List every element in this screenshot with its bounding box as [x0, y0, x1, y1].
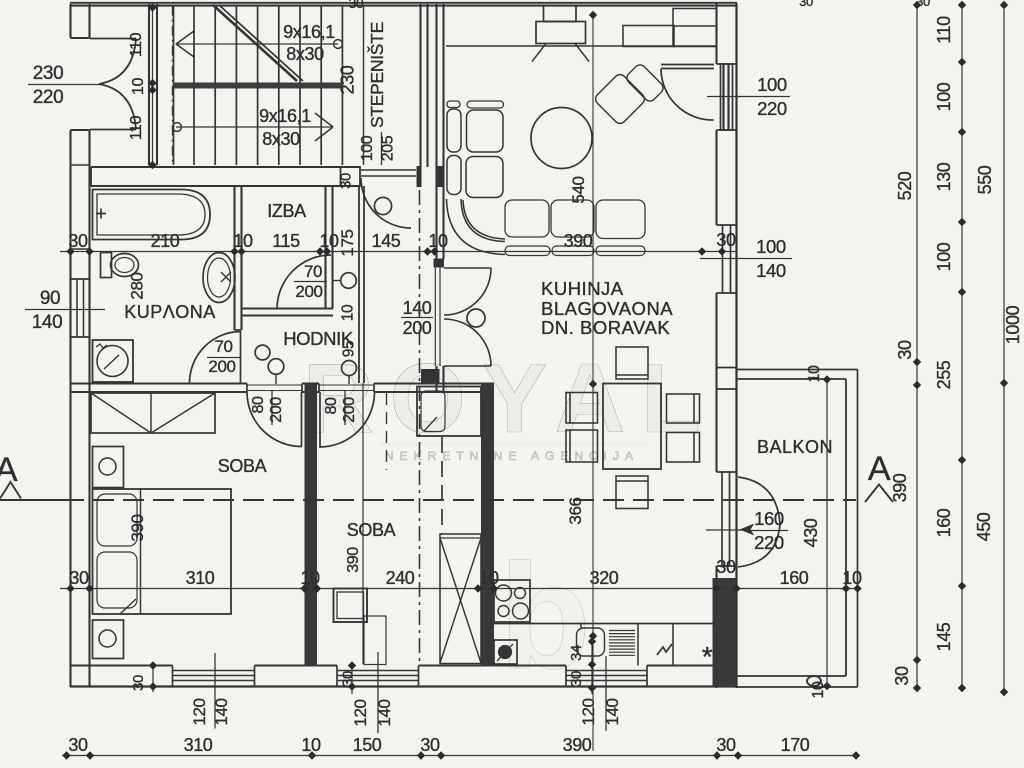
wall thickness dim 30 at bottom wall middle — [351, 662, 353, 694]
dining chair left 1 — [566, 393, 598, 424]
vertical dimension line x593 with 540 and 366 — [592, 13, 594, 751]
door knob circle at stair door — [374, 197, 391, 214]
electric symbol — [657, 644, 672, 655]
wall west of living room — [435, 4, 437, 259]
svg-text:A: A — [868, 450, 891, 488]
svg-text:310: 310 — [186, 568, 215, 588]
svg-text:175: 175 — [338, 229, 357, 256]
svg-text:9x16,1: 9x16,1 — [283, 22, 335, 42]
svg-text:70: 70 — [304, 262, 322, 281]
svg-text:160: 160 — [780, 568, 809, 588]
watermark ROYAL — [303, 343, 717, 700]
svg-text:200: 200 — [268, 397, 285, 423]
entry double door 230/220 with two swing arcs — [90, 38, 136, 40]
svg-text:230: 230 — [338, 65, 358, 94]
svg-text:SOBA: SOBA — [347, 520, 396, 540]
dining table — [603, 384, 661, 470]
svg-text:140: 140 — [756, 260, 786, 281]
svg-text:550: 550 — [975, 165, 995, 194]
svg-text:30: 30 — [895, 340, 915, 360]
sofa seat cushions left — [467, 110, 504, 152]
svg-text:30: 30 — [130, 675, 147, 691]
dining chair right 1 — [667, 394, 700, 423]
svg-text:390: 390 — [890, 473, 910, 502]
svg-text:10: 10 — [806, 365, 823, 382]
svg-text:10: 10 — [319, 231, 339, 251]
svg-text:10: 10 — [428, 231, 448, 251]
svg-text:10: 10 — [301, 735, 321, 755]
svg-text:320: 320 — [590, 568, 619, 588]
balcony door 160/220 glazing in right wall — [721, 472, 723, 566]
svg-text:SOBA: SOBA — [218, 456, 267, 476]
svg-text:140: 140 — [403, 298, 432, 318]
svg-text:HODNIK: HODNIK — [283, 328, 354, 349]
door threshold lines — [247, 384, 302, 386]
pillows — [97, 494, 137, 546]
svg-text:34: 34 — [568, 645, 585, 661]
svg-text:10: 10 — [810, 681, 827, 698]
svg-text:9x16,1: 9x16,1 — [259, 106, 311, 126]
kitchen sink basin with drain — [494, 640, 517, 664]
svg-text:30: 30 — [799, 0, 813, 9]
svg-text:205: 205 — [380, 135, 397, 161]
wall east of stairwell — [419, 4, 421, 167]
armchair cushion rotated 45 — [624, 62, 665, 103]
wall south of hallway — [70, 382, 247, 384]
double door 140/200 upper leaf and arc — [444, 267, 491, 269]
svg-text:30: 30 — [568, 671, 585, 687]
wall south of izba — [242, 307, 334, 309]
svg-text:150: 150 — [353, 735, 382, 755]
balcony rail junction block at wall — [717, 367, 737, 369]
furniture back line along top wall — [446, 45, 716, 47]
balcony length dim 430 — [826, 379, 828, 686]
svg-text:145: 145 — [372, 231, 401, 251]
svg-text:30: 30 — [340, 671, 357, 687]
svg-text:10: 10 — [300, 568, 320, 588]
wall under stairs — [91, 166, 360, 168]
wall thickness dim 30 at bottom wall left — [152, 662, 154, 692]
nightstand 1 with lamp — [93, 447, 124, 488]
dimension line right inner x917 — [916, 2, 918, 690]
door frame lines across opening — [434, 267, 436, 366]
sofa back slat left — [447, 109, 461, 152]
stair annotation lower 9x16,1 / 8x30 with arrow — [176, 126, 333, 128]
wall between bedroom2 and kitchen solid — [481, 384, 494, 667]
cabinet top right corner — [623, 26, 674, 47]
svg-text:BALKON: BALKON — [757, 437, 833, 457]
single bed bedroom2 — [417, 387, 481, 437]
svg-text:160: 160 — [754, 508, 784, 529]
svg-text:30: 30 — [68, 735, 88, 755]
dining chair left 2 — [566, 430, 598, 462]
svg-text:KUPΛONA: KUPΛONA — [124, 302, 216, 322]
svg-text:30: 30 — [420, 735, 440, 755]
dashed projection line — [419, 190, 421, 666]
svg-text:30: 30 — [716, 557, 736, 577]
svg-text:170: 170 — [781, 735, 810, 755]
svg-text:30: 30 — [69, 568, 89, 588]
tv cabinet — [544, 6, 577, 22]
svg-text:8x30: 8x30 — [286, 44, 324, 64]
kitchen hob 4 burners — [494, 580, 530, 622]
wall between bathroom and hallway — [233, 186, 235, 330]
balcony drain — [807, 676, 821, 686]
svg-text:240: 240 — [386, 568, 415, 588]
svg-text:390: 390 — [563, 735, 592, 755]
svg-text:30: 30 — [338, 173, 355, 189]
bathtub — [93, 190, 211, 240]
svg-text:100: 100 — [756, 236, 786, 257]
svg-text:STEPENIŠTE: STEPENIŠTE — [366, 22, 387, 128]
stair annotation upper 9x16,1 / 8x30 with arrow — [176, 43, 338, 45]
svg-text:10: 10 — [340, 304, 357, 321]
svg-text:10: 10 — [842, 568, 862, 588]
window label 100/140 — [700, 258, 792, 260]
window left (90/140) in bathroom wall — [71, 278, 90, 280]
wall between izba and hallway — [324, 186, 326, 308]
svg-text:KUHINJA: KUHINJA — [541, 278, 624, 299]
section line A-A dashed — [0, 499, 63, 501]
wall top exterior — [70, 2, 737, 4]
bedside cabinet bedroom2 — [334, 589, 368, 623]
stair break line diagonal — [213, 5, 297, 81]
balcony door 160/220 double swing arcs — [738, 477, 780, 524]
svg-text:NEKRETNINE AGENCIJA: NEKRETNINE AGENCIJA — [385, 449, 639, 463]
dashed projection line 2 — [441, 437, 443, 534]
svg-text:115: 115 — [272, 231, 300, 251]
svg-text:220: 220 — [754, 532, 784, 553]
svg-text:90: 90 — [40, 288, 60, 309]
svg-text:110: 110 — [128, 115, 145, 140]
svg-text:140: 140 — [603, 698, 622, 725]
entry dim chain 110 10 110 rotated — [152, 7, 154, 165]
door 80/200 to bedroom 1 leaf and arc — [301, 392, 303, 447]
door knob at izba door — [341, 273, 357, 289]
svg-text:30: 30 — [892, 666, 912, 686]
window 120/140 kitchen in bottom wall — [566, 670, 647, 672]
window dim 120/140 bedroom2 — [377, 652, 379, 733]
bathroom door 70/200 leaf and arc — [240, 331, 242, 383]
kitchen sink under window — [577, 628, 605, 656]
window 120/140 bedroom 1 in bottom wall — [173, 670, 255, 672]
bathtub tap — [96, 213, 106, 215]
dining chair right 2 — [667, 433, 700, 463]
svg-text:ROYAL: ROYAL — [303, 343, 717, 453]
wall thickness block with label 30 — [341, 167, 361, 186]
svg-text:390: 390 — [564, 231, 593, 251]
door 100/205 from stairs leaf and arc — [361, 169, 416, 171]
svg-text:80: 80 — [323, 397, 340, 414]
svg-text:30: 30 — [716, 230, 736, 250]
door knobs at bathroom door — [255, 345, 270, 360]
svg-text:120: 120 — [190, 698, 209, 725]
svg-text:100: 100 — [757, 74, 787, 95]
french window 100/220 glazing in right wall — [721, 64, 733, 130]
svg-text:100: 100 — [934, 82, 954, 111]
izba door 70/200 arc — [277, 255, 331, 309]
round coffee table — [531, 108, 592, 169]
balcony door label 160/220 — [706, 529, 749, 531]
toilet — [101, 253, 112, 278]
svg-text:540: 540 — [569, 176, 588, 203]
svg-text:390: 390 — [128, 514, 147, 541]
svg-text:430: 430 — [801, 518, 821, 547]
door jamb dark piece — [417, 166, 422, 187]
nightstand 2 with lamp — [93, 620, 124, 659]
svg-text:10: 10 — [233, 231, 253, 251]
double door 140/200 lower leaf and arc — [444, 365, 491, 367]
svg-text:30: 30 — [68, 231, 88, 251]
dimension line right middle x962 — [961, 2, 963, 690]
dining chair bottom — [616, 476, 648, 509]
sofa front slats — [505, 246, 550, 256]
partition extension line lower — [362, 383, 364, 664]
dimension chain interior y588 — [60, 588, 858, 590]
parapet dim 30 34 at kitchen — [591, 636, 593, 694]
svg-text:280: 280 — [128, 272, 147, 299]
sofa corner curve — [447, 199, 506, 255]
dining chair top — [616, 347, 648, 379]
svg-text:145: 145 — [934, 622, 954, 651]
svg-text:450: 450 — [974, 512, 994, 541]
french window 100/220 door leaf and arc — [661, 64, 714, 66]
svg-text:130: 130 — [934, 162, 954, 191]
armchair rotated 45 — [593, 72, 647, 126]
dimension line right outer x1004 — [1003, 2, 1005, 692]
wall between bedroom1 and bedroom2 solid — [305, 384, 318, 667]
svg-text:10: 10 — [479, 568, 499, 588]
svg-text:200: 200 — [403, 318, 432, 338]
svg-text:70: 70 — [214, 337, 232, 356]
svg-text:140: 140 — [375, 699, 394, 726]
svg-text:DN. BORAVAK: DN. BORAVAK — [541, 317, 670, 338]
svg-text:1000: 1000 — [1003, 305, 1023, 344]
svg-text:210: 210 — [151, 231, 180, 251]
dimension chain bottom y755 — [62, 755, 858, 757]
wall left exterior — [69, 4, 71, 38]
stair flight risers — [193, 6, 195, 165]
double bed — [93, 489, 232, 614]
balcony railing — [737, 369, 858, 371]
desk with cross bedroom2 — [440, 534, 481, 664]
stair walking line dashed — [172, 6, 174, 165]
svg-text:BLAGOVAONA: BLAGOVAONA — [541, 298, 673, 319]
stairwell left boundary — [173, 6, 175, 165]
wall right exterior — [715, 3, 717, 64]
svg-text:IZBA: IZBA — [267, 201, 306, 221]
svg-text:30: 30 — [716, 735, 736, 755]
svg-text:*: * — [702, 641, 713, 672]
washbasin — [203, 253, 235, 303]
kitchen counter edge — [494, 623, 717, 625]
svg-text:200: 200 — [341, 397, 358, 423]
window 100/140 glazing in right wall — [722, 225, 724, 293]
sofa top caps — [467, 101, 504, 108]
svg-text:8x30: 8x30 — [262, 129, 300, 149]
svg-text:255: 255 — [934, 360, 954, 389]
hallway partition wall thin — [358, 186, 360, 383]
wardrobe with V marks — [91, 393, 215, 433]
short dashed line below hallway wall — [386, 393, 388, 470]
svg-text:80: 80 — [250, 396, 267, 413]
svg-text:200: 200 — [208, 357, 235, 376]
svg-text:220: 220 — [33, 87, 64, 108]
stair landing boundary line — [363, 6, 365, 165]
window dim 120/140 bedroom1 — [214, 653, 216, 729]
svg-text:220: 220 — [757, 98, 787, 119]
svg-text:120: 120 — [351, 699, 370, 726]
window dim 120/140 kitchen — [605, 656, 607, 731]
dimension chain upper y251 — [60, 251, 737, 253]
window 120/140 bedroom 2 in bottom wall — [337, 670, 419, 672]
svg-text:120: 120 — [579, 698, 598, 725]
sofa seat cushions bottom — [505, 200, 549, 237]
blanket fold mark — [120, 599, 136, 614]
svg-text:140: 140 — [32, 312, 63, 333]
svg-text:140: 140 — [212, 698, 231, 725]
svg-text:160: 160 — [934, 508, 954, 537]
washing machine — [93, 340, 134, 382]
svg-text:10: 10 — [130, 78, 147, 95]
svg-text:366: 366 — [566, 497, 585, 524]
svg-text:520: 520 — [895, 171, 915, 200]
svg-text:100: 100 — [934, 242, 954, 271]
wall bottom exterior — [70, 664, 173, 666]
svg-text:230: 230 — [33, 63, 64, 84]
svg-text:310: 310 — [184, 735, 213, 755]
svg-text:100: 100 — [359, 135, 376, 161]
svg-text:390: 390 — [345, 547, 362, 573]
wall pier at balcony bottom left — [713, 578, 737, 687]
door 80/200 to bedroom 2 leaf and arc — [319, 392, 321, 448]
wall between entry hall and stairs — [148, 4, 150, 165]
svg-text:110: 110 — [128, 32, 145, 57]
door knob bedroom2 door with stem — [342, 361, 357, 376]
svg-text:110: 110 — [934, 16, 954, 44]
svg-text:200: 200 — [295, 282, 322, 301]
dish rack hatched — [609, 631, 635, 656]
door knob at double door — [467, 309, 485, 327]
stair landing edge thick — [173, 83, 342, 89]
french window label 100/220 — [707, 96, 790, 98]
svg-text:30: 30 — [349, 0, 364, 11]
low shelf under bedroom2 window — [364, 616, 386, 665]
